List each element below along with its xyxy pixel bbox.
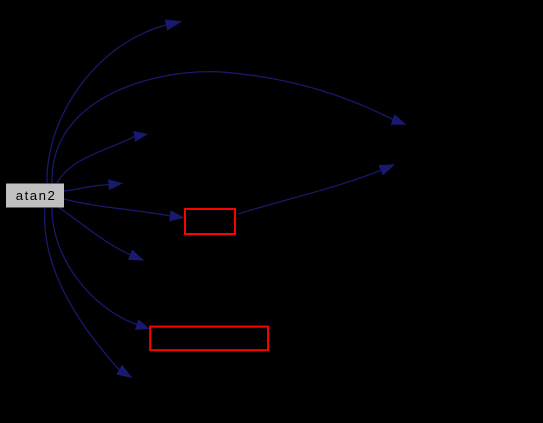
- arrowhead edge atan2 to upper right node: [391, 114, 407, 125]
- truncated callee node red box 1: [185, 209, 235, 234]
- arrowhead edge atan2 to bottom node: [116, 365, 132, 378]
- arrowhead edge atan2 to top node: [165, 20, 183, 31]
- wire edge atan2 to node 3: [57, 136, 134, 183]
- wire edge atan2 to red node 2: [52, 208, 137, 325]
- wire edge atan2 to node 6: [58, 207, 130, 255]
- wire edge red node 1 to right node: [238, 170, 381, 214]
- truncated callee node red box 2: [150, 327, 268, 351]
- arrowhead edge atan2 to node 4: [108, 179, 123, 190]
- wire edge atan2 to top node: [47, 25, 166, 183]
- arrowhead edge atan2 to node 6: [128, 250, 145, 261]
- arrowhead edge atan2 to red node 1: [169, 210, 184, 221]
- arrowhead edge red node 1 to right node: [379, 164, 396, 175]
- wire edge atan2 to node 4: [64, 185, 109, 191]
- arrowhead edge atan2 to node 3: [133, 131, 148, 142]
- arrowhead edge atan2 to red node 2: [135, 319, 150, 330]
- node atan2 (current node, grey fill): [6, 184, 64, 208]
- wire edge atan2 to bottom node: [45, 208, 119, 370]
- wire edge atan2 to upper right node: [52, 72, 393, 183]
- wire edge atan2 to red node 1: [64, 199, 170, 216]
- svg-text:atan2: atan2: [16, 188, 57, 203]
